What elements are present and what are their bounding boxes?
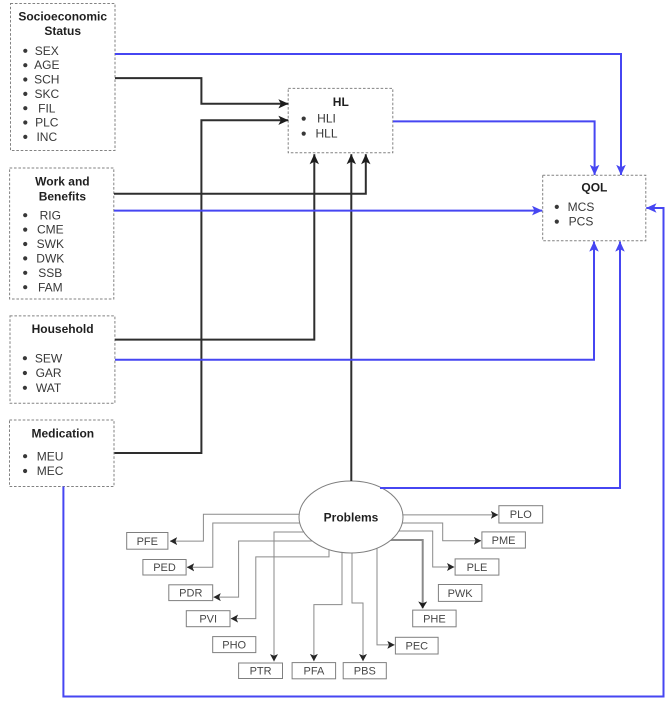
svg-text:PFE: PFE: [137, 536, 158, 548]
svg-text:PCS: PCS: [569, 215, 594, 229]
wire Problems to PFA: [314, 548, 342, 661]
node Household (dashed box): [10, 316, 115, 403]
wire Problems to PTR: [274, 532, 312, 661]
svg-text:SCH: SCH: [34, 73, 59, 87]
wire Medication to QOL: [63, 208, 663, 697]
node Problems (ellipse): [299, 481, 403, 553]
svg-text:RIG: RIG: [40, 208, 61, 222]
svg-text:FAM: FAM: [38, 280, 63, 294]
svg-text:Socioeconomic: Socioeconomic: [18, 10, 107, 24]
svg-text:PLO: PLO: [510, 509, 532, 521]
node PLE: [455, 559, 499, 575]
svg-text:PLE: PLE: [467, 562, 488, 574]
node QOL (dashed box): [543, 175, 646, 240]
wire Problems to PED: [187, 523, 310, 567]
svg-text:PTR: PTR: [250, 666, 272, 678]
wire Work and Benefits to HL: [114, 154, 366, 193]
wire Problems to PLE: [394, 531, 454, 567]
svg-text:Benefits: Benefits: [39, 189, 87, 203]
wire Problems to PME: [396, 523, 481, 541]
wire Socioeconomic to QOL: [115, 54, 621, 175]
svg-text:PED: PED: [153, 562, 176, 574]
svg-text:PHO: PHO: [222, 640, 246, 652]
svg-text:PWK: PWK: [448, 588, 474, 600]
node PED: [143, 560, 186, 576]
svg-text:PLC: PLC: [35, 116, 59, 130]
svg-text:SEW: SEW: [35, 351, 63, 365]
node PTR: [239, 663, 283, 679]
svg-text:MEC: MEC: [37, 464, 64, 478]
svg-text:Household: Household: [32, 322, 94, 336]
svg-text:SKC: SKC: [34, 87, 59, 101]
wire Problems to QOL: [380, 242, 620, 489]
svg-text:PEC: PEC: [405, 641, 428, 653]
node Medication (dashed box): [10, 420, 115, 487]
svg-text:HLL: HLL: [315, 127, 337, 141]
wire Work and Benefits to QOL: [114, 210, 542, 212]
svg-text:HL: HL: [333, 95, 349, 109]
svg-text:Work and: Work and: [35, 175, 89, 189]
svg-text:DWK: DWK: [36, 252, 64, 266]
wire Problems to PFE: [170, 514, 310, 541]
node PHO: [213, 637, 256, 653]
wire Problems to PEC: [377, 544, 395, 645]
svg-text:Medication: Medication: [31, 426, 94, 440]
node HL (dashed box): [288, 88, 393, 152]
wire Problems to PLO: [396, 514, 498, 516]
svg-text:INC: INC: [36, 130, 57, 144]
wire Problems to PVI: [231, 548, 329, 619]
node PDR: [169, 585, 213, 601]
svg-text:PBS: PBS: [354, 666, 376, 678]
svg-text:SWK: SWK: [37, 237, 64, 251]
wire Problems to HL: [350, 154, 352, 481]
node Socioeconomic Status (dashed box): [11, 4, 116, 151]
svg-text:CME: CME: [37, 223, 64, 237]
wire Medication to HL: [115, 120, 289, 453]
svg-text:QOL: QOL: [581, 180, 607, 194]
node PFE: [127, 533, 168, 550]
svg-text:SSB: SSB: [38, 266, 62, 280]
node PHE: [413, 610, 456, 627]
svg-text:Problems: Problems: [324, 511, 379, 525]
svg-text:PME: PME: [492, 535, 516, 547]
svg-text:SEX: SEX: [35, 44, 59, 58]
node PFA: [292, 663, 336, 679]
svg-text:MCS: MCS: [568, 200, 595, 214]
node Work and Benefits (dashed box): [10, 168, 114, 299]
wire Problems to PDR: [214, 541, 318, 597]
wire Problems to PHE: [390, 540, 423, 608]
svg-text:Status: Status: [44, 24, 81, 38]
svg-text:PHE: PHE: [423, 613, 446, 625]
node PME: [482, 532, 526, 548]
svg-text:HLI: HLI: [317, 112, 336, 126]
svg-text:PVI: PVI: [199, 614, 217, 626]
node PWK: [438, 585, 482, 602]
svg-text:FIL: FIL: [38, 101, 56, 115]
svg-text:MEU: MEU: [37, 449, 64, 463]
wire Household to QOL: [115, 242, 594, 360]
node PVI: [186, 611, 230, 627]
node PLO: [499, 506, 543, 523]
svg-text:WAT: WAT: [36, 381, 62, 395]
wire HL to QOL: [393, 121, 595, 175]
node PBS: [343, 663, 386, 679]
wire Socioeconomic to HL: [115, 78, 288, 104]
node PEC: [395, 637, 438, 654]
svg-text:AGE: AGE: [34, 58, 59, 72]
wire Problems to PBS: [352, 548, 363, 661]
wire Household to HL: [115, 154, 314, 339]
svg-text:PDR: PDR: [179, 588, 202, 600]
svg-text:PFA: PFA: [304, 666, 325, 678]
svg-text:GAR: GAR: [36, 366, 62, 380]
